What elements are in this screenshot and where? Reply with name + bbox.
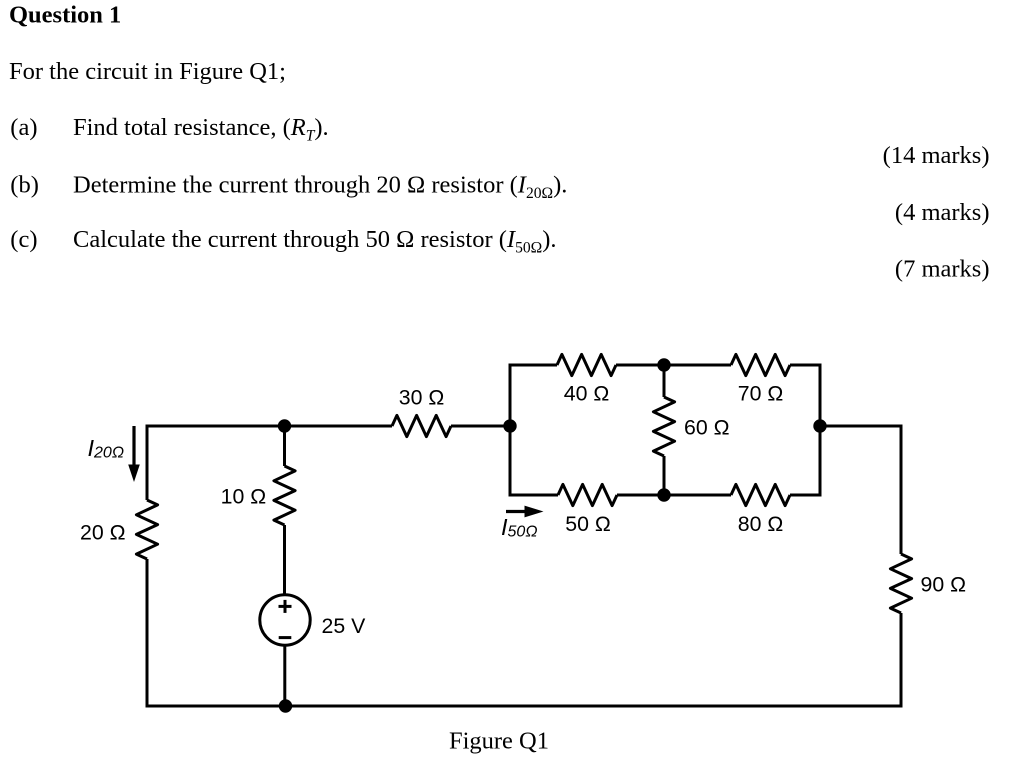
resistor R 60ohm zigzag bbox=[653, 397, 674, 456]
current arrow I20ohm (down) bbox=[128, 426, 140, 482]
wire: 30ohm to bridge left node B bbox=[451, 425, 510, 428]
node E junction dot (bridge right) bbox=[813, 419, 826, 432]
voltage source V1 circle bbox=[260, 595, 310, 645]
resistor R 80ohm zigzag bbox=[731, 484, 790, 505]
wire: right node to right branch corner bbox=[820, 425, 903, 428]
svg-text:(7 marks): (7 marks) bbox=[895, 255, 990, 282]
wire: right branch vertical top (corner to 90ohm) bbox=[900, 425, 903, 555]
wire: bridge bottom rail middle segment bbox=[617, 494, 731, 497]
voltage source plus sign bbox=[279, 605, 292, 608]
wire: left branch vertical top (corner to 20ohm) bbox=[146, 425, 149, 501]
resistor R 50ohm zigzag bbox=[558, 484, 617, 505]
node D junction dot (bridge bottom middle) bbox=[657, 488, 670, 501]
wire: bridge top rail left segment bbox=[510, 364, 557, 367]
svg-text:10 Ω: 10 Ω bbox=[221, 485, 267, 509]
wire: top rail from left corner to node A bbox=[147, 425, 285, 428]
resistor R 20ohm zigzag bbox=[136, 500, 157, 559]
wire: middle branch node A down to 10ohm bbox=[283, 426, 286, 466]
svg-text:Figure Q1: Figure Q1 bbox=[449, 728, 549, 755]
wire: left branch vertical bottom (20ohm to bottom rail) bbox=[146, 559, 149, 708]
svg-text:25 V: 25 V bbox=[322, 614, 367, 638]
node A junction dot (top rail / middle branch) bbox=[278, 419, 291, 432]
resistor R 70ohm zigzag bbox=[731, 354, 790, 375]
svg-text:20 Ω: 20 Ω bbox=[80, 521, 126, 545]
svg-text:Find total resistance, (RT).: Find total resistance, (RT). bbox=[73, 114, 329, 145]
resistor R 40ohm zigzag bbox=[557, 354, 616, 375]
node B junction dot (bridge left) bbox=[503, 419, 516, 432]
svg-text:30 Ω: 30 Ω bbox=[399, 386, 445, 410]
svg-text:Determine the current through: Determine the current through 20 Ω resis… bbox=[73, 172, 567, 203]
svg-text:40 Ω: 40 Ω bbox=[564, 382, 610, 406]
voltage source minus sign bbox=[279, 636, 292, 639]
svg-text:I20Ω: I20Ω bbox=[88, 435, 125, 462]
wire: bridge top rail right segment bbox=[790, 364, 822, 367]
wire: bridge top rail middle segment bbox=[616, 364, 731, 367]
node C junction dot (bridge top middle) bbox=[657, 358, 670, 371]
svg-text:90 Ω: 90 Ω bbox=[921, 573, 967, 597]
wire: top rail node A to 30ohm resistor bbox=[285, 425, 393, 428]
current arrow I50ohm (right) bbox=[506, 506, 544, 518]
svg-text:(a): (a) bbox=[10, 114, 37, 141]
node F junction dot (bottom rail / source branch) bbox=[279, 699, 292, 712]
wire: bridge middle vertical top (node C to 60ohm) bbox=[663, 365, 666, 397]
wire: bridge middle vertical bottom (60ohm to node D) bbox=[663, 456, 666, 495]
svg-text:For the circuit in Figure Q1;: For the circuit in Figure Q1; bbox=[9, 58, 286, 85]
wire: bridge bottom rail left segment bbox=[510, 494, 558, 497]
wire: 10ohm to voltage source top bbox=[283, 525, 286, 595]
svg-text:(c): (c) bbox=[10, 226, 37, 253]
svg-text:Question 1: Question 1 bbox=[9, 2, 121, 29]
svg-text:I50Ω: I50Ω bbox=[501, 514, 538, 541]
resistor R 10ohm zigzag bbox=[274, 466, 295, 525]
wire: bridge right vertical bbox=[819, 364, 822, 497]
svg-text:60 Ω: 60 Ω bbox=[684, 415, 730, 439]
svg-text:80 Ω: 80 Ω bbox=[738, 512, 784, 536]
wire: bridge bottom rail right segment bbox=[790, 494, 822, 497]
svg-text:Calculate the current through: Calculate the current through 50 Ω resis… bbox=[73, 226, 557, 256]
svg-text:(14 marks): (14 marks) bbox=[883, 142, 990, 169]
wire: bottom rail bbox=[146, 705, 903, 708]
wire: right branch vertical bottom (90ohm to bottom rail) bbox=[900, 613, 903, 708]
svg-text:70 Ω: 70 Ω bbox=[738, 382, 784, 406]
svg-text:(b): (b) bbox=[10, 172, 39, 199]
resistor R 30ohm zigzag bbox=[392, 415, 451, 436]
svg-text:(4 marks): (4 marks) bbox=[895, 199, 990, 226]
wire: voltage source bottom to bottom rail bbox=[283, 645, 286, 706]
svg-text:50 Ω: 50 Ω bbox=[565, 512, 611, 536]
wire: bridge left vertical bbox=[509, 364, 512, 497]
resistor R 90ohm zigzag bbox=[890, 554, 911, 613]
